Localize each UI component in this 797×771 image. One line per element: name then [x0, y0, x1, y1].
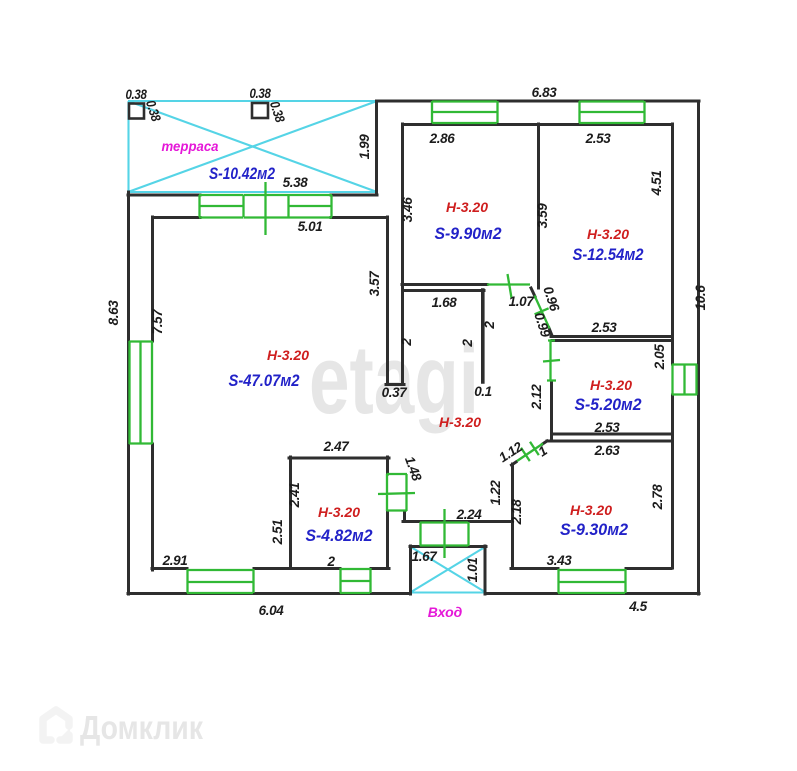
wall: upper diagonal ends [531, 288, 552, 336]
svg-text:2.47: 2.47 [323, 439, 351, 454]
wall: S-4.82 right upper [386, 457, 389, 474]
svg-text:Н-3.20: Н-3.20 [318, 504, 360, 520]
porch bottom edge [410, 591, 486, 593]
svg-text:0.96: 0.96 [540, 285, 562, 314]
svg-text:1.22: 1.22 [488, 480, 503, 506]
svg-text:Н-3.20: Н-3.20 [587, 226, 629, 242]
pillar: terrace square 1 [129, 104, 144, 119]
svg-text:Домклик: Домклик [80, 709, 203, 746]
svg-text:Н-3.20: Н-3.20 [446, 199, 488, 215]
svg-text:S-47.07м2: S-47.07м2 [229, 371, 300, 390]
svg-text:2.53: 2.53 [591, 320, 618, 335]
svg-text:1.68: 1.68 [432, 295, 458, 310]
wall: big room top inner line [153, 216, 387, 219]
wall: divider S-9.90/S-12.54 [537, 124, 540, 288]
svg-text:Н-3.20: Н-3.20 [267, 347, 309, 363]
wall: S-9.30 top [547, 440, 671, 443]
window: S-5.20 right wall [672, 364, 697, 395]
svg-text:2.51: 2.51 [270, 520, 285, 546]
svg-text:0.38: 0.38 [250, 86, 272, 101]
svg-text:S-10.42м2: S-10.42м2 [209, 164, 275, 183]
wall: porch left [409, 546, 412, 594]
svg-text:6.04: 6.04 [259, 603, 285, 618]
svg-text:2.53: 2.53 [585, 131, 612, 146]
svg-text:2: 2 [460, 339, 475, 348]
wall: top inner line (rooms 9.90 and 12.54) [403, 123, 672, 126]
svg-text:0.1: 0.1 [474, 384, 492, 399]
watermark domclick logo [43, 710, 70, 741]
svg-text:1.07: 1.07 [509, 294, 536, 309]
wall: left inner line lower [151, 444, 154, 570]
opening: S-5.20 left green segment [543, 340, 560, 381]
window: bottom wall S-4.82 [340, 568, 371, 593]
wall: S-9.90 bottom [402, 283, 487, 286]
wall: porch top [410, 545, 486, 548]
svg-text:6.83: 6.83 [532, 85, 558, 100]
svg-text:5.38: 5.38 [283, 175, 309, 190]
svg-text:1.12: 1.12 [496, 439, 526, 466]
svg-text:2: 2 [326, 554, 335, 569]
wall: top outer [377, 100, 699, 103]
svg-text:1.01: 1.01 [465, 558, 480, 583]
svg-text:2.63: 2.63 [594, 443, 621, 458]
pillar: terrace square 2 [252, 103, 268, 118]
svg-text:2.05: 2.05 [652, 344, 667, 371]
svg-text:2.86: 2.86 [429, 131, 456, 146]
svg-text:1: 1 [535, 443, 549, 459]
svg-text:2.91: 2.91 [162, 553, 188, 568]
svg-text:S-9.30м2: S-9.30м2 [560, 520, 629, 539]
svg-text:0.38: 0.38 [126, 87, 148, 102]
wall: bottom outer left segment [128, 592, 410, 595]
svg-text:Н-3.20: Н-3.20 [570, 502, 612, 518]
svg-text:3.59: 3.59 [535, 203, 550, 229]
svg-text:2.41: 2.41 [287, 483, 302, 509]
wall: bottom inner line S-9.30 [511, 567, 671, 570]
terrace X cross [128, 101, 377, 192]
door: upper diagonal leaf [535, 296, 550, 329]
wall: S-4.82 right lower [386, 511, 389, 568]
svg-text:S-4.82м2: S-4.82м2 [306, 526, 373, 545]
svg-text:0.38: 0.38 [267, 99, 288, 124]
svg-text:0.37: 0.37 [382, 385, 409, 400]
wall: terrace right edge [375, 101, 378, 192]
svg-text:Н-3.20: Н-3.20 [439, 414, 481, 430]
wall: hall bottom [403, 520, 512, 523]
wall: right outer [697, 101, 700, 594]
window: top wall left (S-9.90) [432, 101, 498, 123]
wall: closet top [403, 289, 484, 292]
wall: divider big room right line [386, 217, 389, 384]
wall: left inner line upper [151, 217, 154, 341]
wall: S-12.54 bottom [551, 335, 672, 338]
wall: left outer [127, 192, 130, 594]
wall: lower diagonal ends [512, 441, 548, 465]
wall: S-5.20 left [550, 381, 553, 439]
window: bottom wall S-9.30 [558, 569, 626, 593]
wall: bottom inner line big room / S-4.82 [152, 567, 389, 570]
svg-text:терраса: терраса [162, 138, 219, 154]
wall: porch right [484, 546, 487, 594]
svg-text:2.18: 2.18 [509, 499, 524, 526]
svg-text:2.53: 2.53 [594, 420, 621, 435]
svg-text:S-5.20м2: S-5.20м2 [575, 395, 642, 414]
wall: bottom outer right segment [486, 592, 699, 595]
svg-text:S-12.54м2: S-12.54м2 [573, 245, 644, 264]
door: S-9.90 bottom opening 1.07 [487, 274, 530, 298]
window: top wall right (S-12.54) [579, 101, 645, 123]
door: hall entrance 2.24 [420, 509, 469, 558]
svg-text:2: 2 [482, 321, 497, 330]
svg-text:7.57: 7.57 [150, 308, 165, 335]
svg-text:5.01: 5.01 [298, 219, 323, 234]
svg-text:2.24: 2.24 [456, 507, 483, 522]
porch X cross [411, 547, 485, 592]
svg-text:Н-3.20: Н-3.20 [590, 377, 632, 393]
svg-text:4.51: 4.51 [649, 171, 664, 197]
window: bottom wall big room [187, 569, 254, 593]
wall: right inner line upper (S-12.54) [671, 124, 674, 364]
svg-text:Вход: Вход [428, 604, 463, 620]
svg-text:0.38: 0.38 [143, 98, 164, 123]
shelf: S-4.82 right wall niche [378, 474, 415, 511]
terrace outline [128, 101, 377, 192]
wall: S-4.82 left [289, 457, 292, 568]
door: terrace opening axis [244, 182, 289, 235]
svg-text:10.6: 10.6 [693, 285, 708, 311]
wall: S-9.30 left [511, 464, 514, 568]
svg-text:3.57: 3.57 [367, 270, 382, 297]
door: lower diagonal leaf [517, 442, 543, 461]
wall: right inner line lower (S-5.20 / S-9.30) [671, 395, 674, 568]
wall: terrace bottom / house top band upper line [128, 194, 377, 197]
wall: closet left line [401, 124, 404, 384]
svg-text:S-9.90м2: S-9.90м2 [435, 224, 502, 243]
wall: stub cap 0.37 [386, 383, 404, 386]
svg-text:2.78: 2.78 [650, 484, 665, 511]
svg-text:1.67: 1.67 [412, 549, 439, 564]
svg-text:1.99: 1.99 [357, 134, 372, 160]
window: terrace wall left casement [199, 195, 244, 218]
svg-text:2.12: 2.12 [529, 384, 544, 411]
svg-text:8.63: 8.63 [106, 300, 121, 326]
svg-text:3.46: 3.46 [400, 197, 415, 223]
wall: S-4.82 top [289, 457, 389, 460]
window: terrace wall right casement [288, 195, 332, 218]
wall: S-5.20 bottom [552, 433, 672, 436]
wall: S-5.20 top [552, 339, 672, 342]
wall: niche connector [403, 511, 406, 521]
window: left wall tall [129, 341, 152, 444]
wall: closet right 0.1 [481, 290, 485, 382]
svg-text:3.43: 3.43 [547, 553, 573, 568]
svg-text:2: 2 [399, 338, 414, 347]
svg-text:4.5: 4.5 [628, 599, 647, 614]
